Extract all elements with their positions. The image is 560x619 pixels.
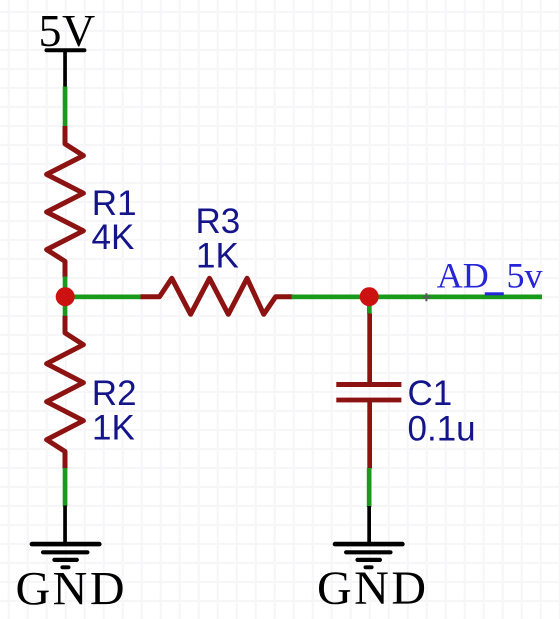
resistor R2: [47, 316, 84, 469]
wire C1 to GND right: [367, 468, 372, 507]
net label AD_5v: [437, 256, 543, 296]
svg-text:AD: AD: [437, 256, 489, 296]
wire R2 to GND left: [63, 468, 68, 507]
svg-text:5v: 5v: [507, 256, 543, 296]
svg-text:0.1u: 0.1u: [408, 409, 476, 448]
ground symbol GND right: [335, 506, 402, 567]
svg-text:GND: GND: [317, 562, 429, 615]
svg-text:R3: R3: [196, 202, 241, 241]
wire node A to R2: [63, 297, 68, 317]
junction node B: [360, 287, 379, 306]
capacitor C1: [336, 314, 401, 469]
wire R3 to node B: [292, 295, 371, 300]
net label anchor cross: [422, 293, 430, 301]
ground symbol GND left: [32, 506, 99, 568]
power port 5V stem: [63, 50, 67, 87]
resistor R1: [47, 126, 84, 278]
svg-text:4K: 4K: [92, 218, 135, 257]
wire node B to C1: [367, 297, 372, 314]
junction node A: [56, 287, 75, 306]
resistor R3: [141, 278, 293, 314]
power port 5V bar symbol: [47, 48, 85, 52]
wire node B to AD_5v: [369, 295, 542, 300]
wire 5V to R1: [63, 87, 68, 128]
wire R1 to node A: [63, 277, 68, 298]
wire node A to R3: [64, 295, 141, 300]
svg-text:1K: 1K: [196, 236, 239, 275]
svg-text:GND: GND: [16, 563, 128, 616]
svg-text:C1: C1: [408, 374, 453, 413]
svg-text:1K: 1K: [92, 408, 135, 447]
